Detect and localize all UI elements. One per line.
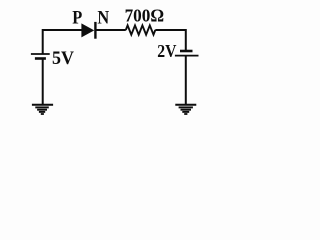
- resistor R 700ohm zigzag: [126, 25, 156, 34]
- svg-text:2V: 2V: [157, 41, 176, 61]
- ground (right): [175, 105, 196, 114]
- diode D (P-N junction) triangle: [82, 24, 94, 37]
- wire: resistor to right corner and down to battery: [155, 30, 186, 50]
- svg-text:P: P: [72, 7, 82, 28]
- diode cathode bar: [94, 22, 96, 39]
- svg-text:700Ω: 700Ω: [125, 6, 165, 26]
- battery 2V: long (positive) plate bottom: [175, 55, 199, 57]
- battery 5V: short (negative) plate bottom: [35, 57, 46, 60]
- wire: right battery to right ground: [185, 57, 187, 105]
- battery 2V: short (negative) plate top: [180, 50, 193, 53]
- wire: diode cathode to resistor: [97, 29, 126, 31]
- svg-text:5V: 5V: [52, 48, 74, 69]
- ground (left): [32, 105, 53, 114]
- svg-text:N: N: [97, 7, 109, 28]
- wire: left battery to left ground: [42, 60, 44, 105]
- wire: left vertical top + top-left horizontal to diode anode: [43, 30, 82, 54]
- battery 5V: long (positive) plate top: [31, 53, 50, 55]
